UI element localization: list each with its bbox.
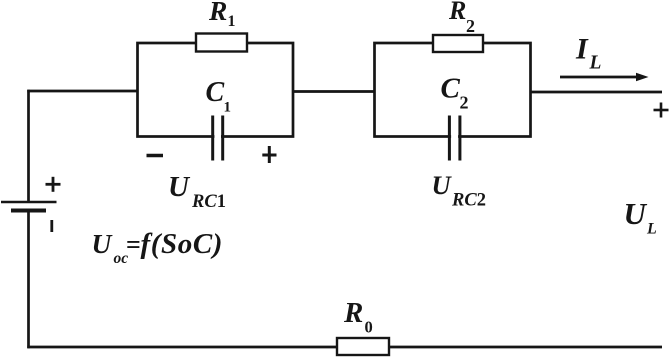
- svg-text:1: 1: [228, 13, 236, 30]
- svg-text:R: R: [208, 0, 227, 26]
- svg-text:C: C: [441, 73, 461, 105]
- svg-text:R: R: [343, 297, 363, 329]
- svg-text:0: 0: [365, 318, 373, 337]
- svg-text:I: I: [575, 33, 589, 66]
- svg-text:=: =: [126, 230, 141, 259]
- svg-text:L: L: [589, 53, 602, 74]
- svg-text:U: U: [92, 228, 114, 259]
- svg-text:L: L: [646, 221, 657, 238]
- svg-text:f(SoC): f(SoC): [141, 228, 224, 260]
- svg-text:U: U: [432, 170, 453, 200]
- svg-text:RC1: RC1: [191, 192, 226, 212]
- svg-text:R: R: [448, 0, 466, 25]
- svg-text:RC2: RC2: [451, 191, 486, 211]
- svg-text:C: C: [206, 77, 225, 108]
- svg-text:2: 2: [466, 16, 475, 36]
- svg-text:U: U: [168, 171, 191, 203]
- svg-text:U: U: [624, 196, 648, 231]
- svg-text:2: 2: [460, 93, 469, 113]
- svg-text:1: 1: [224, 100, 232, 116]
